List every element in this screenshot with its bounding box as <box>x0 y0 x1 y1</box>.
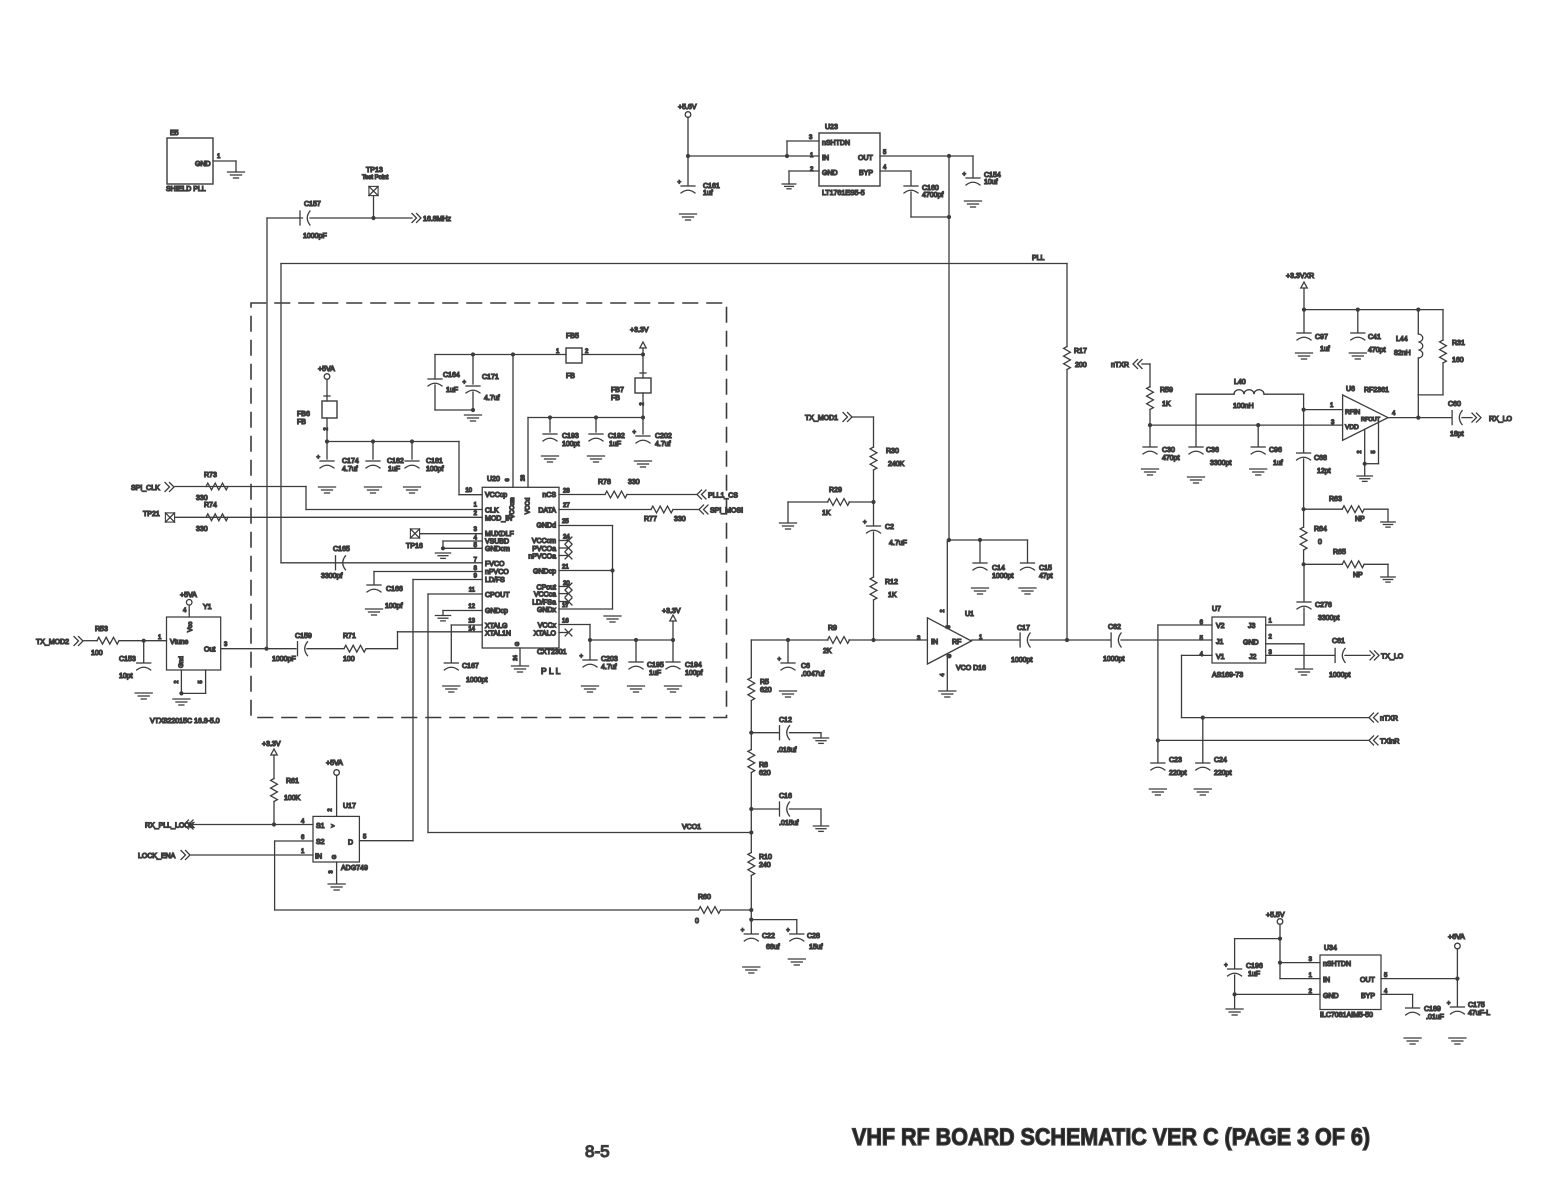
svg-text:C189: C189 <box>1424 1006 1441 1013</box>
svg-text:12: 12 <box>468 604 475 610</box>
svg-text:C182: C182 <box>387 458 404 465</box>
svg-text:FB: FB <box>611 395 620 402</box>
svg-text:4: 4 <box>940 673 946 676</box>
svg-text:GND: GND <box>1323 993 1339 1000</box>
svg-text:C24: C24 <box>1214 757 1227 764</box>
svg-text:10pt: 10pt <box>119 673 133 680</box>
svg-text:100K: 100K <box>284 795 301 802</box>
svg-text:SHIELD PLL: SHIELD PLL <box>166 186 206 193</box>
svg-text:nPVCO: nPVCO <box>485 569 509 576</box>
svg-text:CXT2301: CXT2301 <box>537 649 567 656</box>
svg-text:C15: C15 <box>1039 565 1052 572</box>
svg-text:6: 6 <box>505 478 511 481</box>
svg-text:Out: Out <box>204 647 215 654</box>
svg-text:C17: C17 <box>1017 625 1030 632</box>
svg-text:R59: R59 <box>1160 387 1173 394</box>
svg-text:1K: 1K <box>1162 401 1171 408</box>
svg-text:R60: R60 <box>698 894 711 901</box>
svg-text:4.7uf: 4.7uf <box>484 395 500 402</box>
svg-text:U20: U20 <box>487 476 500 483</box>
svg-text:1uF: 1uF <box>609 441 621 448</box>
svg-text:RX_PLL_LOCK: RX_PLL_LOCK <box>145 823 194 830</box>
svg-text:PVCOa: PVCOa <box>532 546 556 553</box>
svg-text:LD/FSa: LD/FSa <box>532 600 556 607</box>
svg-text:VCCca: VCCca <box>534 592 556 599</box>
svg-text:L44: L44 <box>1396 336 1408 343</box>
svg-text:220pt: 220pt <box>1169 770 1187 777</box>
svg-text:IN: IN <box>1323 977 1330 984</box>
svg-text:XTAL1N: XTAL1N <box>485 631 511 638</box>
svg-text:.018uf: .018uf <box>777 747 797 754</box>
svg-text:4.7uf: 4.7uf <box>601 664 617 671</box>
svg-text:TX_LO: TX_LO <box>1381 654 1404 661</box>
svg-text:+3.3V: +3.3V <box>662 608 681 615</box>
svg-text:15uf: 15uf <box>809 944 823 951</box>
svg-text:27: 27 <box>563 503 570 509</box>
svg-text:nTXR: nTXR <box>1380 716 1398 723</box>
svg-text:+: + <box>1224 963 1228 969</box>
svg-text:GNDcp: GNDcp <box>485 608 508 615</box>
svg-text:SPI_MOSI: SPI_MOSI <box>710 508 743 515</box>
svg-text:U7: U7 <box>1212 606 1221 613</box>
svg-text:C160: C160 <box>922 185 939 192</box>
svg-text:+: + <box>1447 1001 1451 1007</box>
svg-text:C62: C62 <box>1108 624 1121 631</box>
svg-text:+: + <box>863 520 867 526</box>
svg-text:C203: C203 <box>601 656 618 663</box>
svg-text:R65: R65 <box>1333 549 1346 556</box>
svg-text:LT1761ES5-5: LT1761ES5-5 <box>822 190 865 197</box>
svg-text:Y1: Y1 <box>203 604 212 611</box>
svg-text:1K: 1K <box>888 592 897 599</box>
svg-text:.01uF: .01uF <box>1426 1014 1444 1021</box>
svg-text:nTXR: nTXR <box>1111 362 1129 369</box>
svg-text:GNDcp: GNDcp <box>533 569 556 576</box>
svg-text:nSHTDN: nSHTDN <box>1323 961 1351 968</box>
svg-text:16.8MHz: 16.8MHz <box>423 216 452 223</box>
svg-text:C16: C16 <box>779 793 792 800</box>
svg-text:C167: C167 <box>462 663 479 670</box>
svg-text:C2: C2 <box>885 524 894 531</box>
svg-text:VDD: VDD <box>1345 424 1359 431</box>
svg-text:BYP: BYP <box>1361 993 1375 1000</box>
svg-text:25: 25 <box>562 519 569 525</box>
svg-text:SPI_CLK: SPI_CLK <box>131 485 160 492</box>
svg-text:C60: C60 <box>1448 401 1461 408</box>
svg-text:+: + <box>633 430 637 436</box>
svg-text:C96: C96 <box>1269 447 1282 454</box>
svg-text:+: + <box>778 657 782 663</box>
svg-text:R63: R63 <box>1329 496 1342 503</box>
svg-text:RFOUT: RFOUT <box>1361 417 1381 423</box>
svg-text:82nH: 82nH <box>1394 350 1411 357</box>
svg-text:R61: R61 <box>286 778 299 785</box>
svg-text:2K: 2K <box>823 648 832 655</box>
svg-text:2: 2 <box>940 609 946 612</box>
svg-text:R29: R29 <box>829 487 842 494</box>
svg-text:J2: J2 <box>1249 654 1257 661</box>
svg-text:TP16: TP16 <box>406 543 423 550</box>
svg-text:FB: FB <box>566 373 575 380</box>
svg-text:C157: C157 <box>304 201 321 208</box>
svg-text:1000pt: 1000pt <box>992 573 1013 580</box>
svg-text:100: 100 <box>91 650 103 657</box>
svg-text:RFIN: RFIN <box>1345 409 1360 416</box>
svg-text:21: 21 <box>562 565 569 571</box>
svg-text:1000pt: 1000pt <box>1329 672 1350 679</box>
svg-text:U6: U6 <box>1346 386 1355 393</box>
svg-text:100: 100 <box>343 656 355 663</box>
svg-text:+: + <box>786 928 790 934</box>
svg-text:VCCcp: VCCcp <box>485 492 507 499</box>
svg-text:+3.3V: +3.3V <box>262 741 281 748</box>
svg-text:R12: R12 <box>885 579 898 586</box>
svg-text:0: 0 <box>695 918 699 925</box>
svg-text:1uF: 1uF <box>388 466 400 473</box>
svg-text:12pt: 12pt <box>1317 468 1331 475</box>
svg-text:XTALO: XTALO <box>534 631 557 638</box>
svg-text:GNDx: GNDx <box>537 607 557 614</box>
svg-text:26: 26 <box>521 475 527 481</box>
svg-text:FB: FB <box>297 419 306 426</box>
svg-text:J3: J3 <box>1248 623 1256 630</box>
svg-text:OUT: OUT <box>1360 977 1376 984</box>
svg-text:C196: C196 <box>1246 963 1263 970</box>
svg-text:R31: R31 <box>1452 340 1465 347</box>
svg-text:CPOUT: CPOUT <box>485 592 510 599</box>
svg-text:+6VA: +6VA <box>1448 934 1465 941</box>
svg-text:S1: S1 <box>316 823 325 830</box>
svg-text:MUXDLF: MUXDLF <box>485 531 514 538</box>
svg-text:330: 330 <box>196 495 208 502</box>
svg-text:GND: GND <box>1243 640 1259 647</box>
svg-text:TX_MOD2: TX_MOD2 <box>36 639 69 646</box>
svg-text:RF2361: RF2361 <box>1364 387 1389 394</box>
svg-text:MOD_IN: MOD_IN <box>485 516 512 523</box>
svg-text:VTX822015C 16.8-5.0: VTX822015C 16.8-5.0 <box>150 718 220 725</box>
svg-text:ADG749: ADG749 <box>341 865 368 872</box>
svg-text:100pf: 100pf <box>385 603 403 610</box>
svg-text:+: + <box>317 455 321 461</box>
svg-text:>: > <box>331 824 335 830</box>
svg-text:nCS: nCS <box>542 492 556 499</box>
svg-text:FB7: FB7 <box>611 387 624 394</box>
svg-text:100pt: 100pt <box>562 441 580 448</box>
svg-text:3300pt: 3300pt <box>1318 615 1339 622</box>
svg-text:R64: R64 <box>1314 526 1327 533</box>
svg-text:10uf: 10uf <box>984 179 998 186</box>
svg-text:C23: C23 <box>1169 757 1182 764</box>
svg-text:VCCx: VCCx <box>538 623 557 630</box>
svg-text:VCCcm: VCCcm <box>532 538 556 545</box>
svg-text:PLL1_CS: PLL1_CS <box>708 493 738 500</box>
svg-text:FB5: FB5 <box>566 333 579 340</box>
svg-text:R10: R10 <box>759 854 772 861</box>
svg-text:47uF-L: 47uF-L <box>1468 1010 1490 1017</box>
svg-text:C161: C161 <box>703 183 720 190</box>
svg-text:CPout: CPout <box>537 585 557 592</box>
svg-text:Gnd: Gnd <box>178 656 185 668</box>
svg-text:IN: IN <box>822 155 829 162</box>
svg-text:GNDcm: GNDcm <box>485 546 510 553</box>
svg-text:1uf: 1uf <box>1273 460 1283 467</box>
svg-text:OUT: OUT <box>858 155 874 162</box>
svg-text:Vtune: Vtune <box>170 639 188 646</box>
svg-text:100pf: 100pf <box>426 466 444 473</box>
svg-text:R78: R78 <box>598 479 611 486</box>
svg-text:2: 2 <box>174 680 180 683</box>
svg-text:U1: U1 <box>965 611 974 618</box>
svg-text:R53: R53 <box>95 626 108 633</box>
svg-text:1000pt: 1000pt <box>1103 656 1124 663</box>
svg-text:FB6: FB6 <box>297 411 310 418</box>
svg-text:2: 2 <box>1357 450 1363 453</box>
svg-text:470pt: 470pt <box>1162 455 1180 462</box>
svg-text:620: 620 <box>759 770 771 777</box>
svg-text:RF: RF <box>952 639 961 646</box>
svg-text:3300pt: 3300pt <box>1210 460 1231 467</box>
svg-text:C68: C68 <box>1314 455 1327 462</box>
svg-text:4.7uf: 4.7uf <box>655 441 671 448</box>
svg-text:R73: R73 <box>204 472 217 479</box>
svg-text:28: 28 <box>563 489 570 495</box>
svg-text:G: G <box>515 642 521 646</box>
svg-text:+3.3VXR: +3.3VXR <box>1286 273 1314 280</box>
svg-text:G: G <box>332 855 338 859</box>
svg-text:C194: C194 <box>685 662 702 669</box>
svg-text:+: + <box>678 180 682 186</box>
svg-text:J1: J1 <box>1216 639 1224 646</box>
svg-text:2: 2 <box>328 808 334 811</box>
svg-text:VSUBD: VSUBD <box>485 539 509 546</box>
svg-text:NP: NP <box>1353 572 1363 579</box>
svg-text:1uF: 1uF <box>446 387 458 394</box>
svg-text:V1: V1 <box>1216 654 1225 661</box>
svg-text:4.7uF: 4.7uF <box>889 540 907 547</box>
svg-text:CLK: CLK <box>485 508 499 515</box>
svg-text:LD/FS: LD/FS <box>485 577 505 584</box>
svg-text:D: D <box>348 840 353 847</box>
svg-text:C171: C171 <box>482 374 499 381</box>
svg-text:C153: C153 <box>119 656 136 663</box>
svg-text:P L L: P L L <box>541 666 561 676</box>
svg-text:5: 5 <box>1371 450 1377 453</box>
svg-text:C28: C28 <box>807 933 820 940</box>
svg-text:330: 330 <box>196 526 208 533</box>
svg-text:+3.3V: +3.3V <box>630 327 649 334</box>
svg-text:TXinR: TXinR <box>1380 739 1399 746</box>
svg-text:C165: C165 <box>333 546 350 553</box>
svg-text:U34: U34 <box>1324 945 1337 952</box>
svg-text:.015uf: .015uf <box>779 820 799 827</box>
svg-text:GND: GND <box>822 170 838 177</box>
svg-text:C6: C6 <box>801 663 810 670</box>
svg-text:R5: R5 <box>760 679 769 686</box>
svg-text:620: 620 <box>760 687 772 694</box>
svg-text:C61: C61 <box>1332 638 1345 645</box>
svg-text:R9: R9 <box>828 625 837 632</box>
svg-text:R17: R17 <box>1074 348 1087 355</box>
svg-text:C192: C192 <box>608 433 625 440</box>
svg-text:VCO D16: VCO D16 <box>956 665 986 672</box>
svg-text:16: 16 <box>562 619 569 625</box>
svg-text:68uf: 68uf <box>766 944 780 951</box>
svg-text:3300pf: 3300pf <box>321 573 342 580</box>
svg-text:TX_MOD1: TX_MOD1 <box>805 415 838 422</box>
svg-text:200: 200 <box>1075 362 1087 369</box>
svg-text:NP: NP <box>1355 516 1365 523</box>
svg-text:+5VA: +5VA <box>318 366 335 373</box>
svg-text:LOCK_ENA: LOCK_ENA <box>138 853 176 860</box>
svg-text:1K: 1K <box>822 510 831 517</box>
svg-text:.0047uf: .0047uf <box>801 671 824 678</box>
svg-text:100pf: 100pf <box>685 670 703 677</box>
svg-text:+: + <box>963 172 967 178</box>
svg-text:C195: C195 <box>647 662 664 669</box>
svg-text:R74: R74 <box>204 502 217 509</box>
svg-text:24: 24 <box>513 655 519 661</box>
svg-text:1uf: 1uf <box>703 190 713 197</box>
svg-text:C14: C14 <box>992 565 1005 572</box>
svg-text:4700pf: 4700pf <box>922 192 943 199</box>
svg-text:Vcc: Vcc <box>187 622 194 632</box>
svg-text:240K: 240K <box>888 461 905 468</box>
svg-text:C12: C12 <box>779 717 792 724</box>
svg-text:L40: L40 <box>1234 379 1246 386</box>
svg-text:+: + <box>463 380 467 386</box>
svg-text:1uF: 1uF <box>1248 971 1260 978</box>
svg-text:XTALG: XTALG <box>485 623 507 630</box>
svg-text:GND: GND <box>195 161 211 168</box>
svg-text:+5VA: +5VA <box>326 760 343 767</box>
svg-text:C175: C175 <box>1468 1002 1485 1009</box>
svg-text:ILC7081AIM5-50: ILC7081AIM5-50 <box>1320 1012 1373 1019</box>
svg-text:4.7uf: 4.7uf <box>342 466 358 473</box>
svg-text:13: 13 <box>468 619 475 625</box>
svg-text:+5VA: +5VA <box>180 592 197 599</box>
svg-text:160: 160 <box>1452 357 1464 364</box>
svg-text:C22: C22 <box>762 933 775 940</box>
svg-text:18pt: 18pt <box>1450 431 1464 438</box>
svg-text:R8: R8 <box>759 762 768 769</box>
svg-text:C41: C41 <box>1368 334 1381 341</box>
svg-text:C166: C166 <box>386 586 403 593</box>
svg-text:1000pF: 1000pF <box>303 233 327 240</box>
svg-text:IN: IN <box>315 854 322 861</box>
svg-text:+5.5V: +5.5V <box>1266 912 1285 919</box>
svg-text:C36: C36 <box>1206 447 1219 454</box>
svg-text:C154: C154 <box>984 172 1001 179</box>
svg-text:VHF RF BOARD SCHEMATIC VER C (: VHF RF BOARD SCHEMATIC VER C (PAGE 3 OF … <box>852 1124 1370 1151</box>
svg-text:0: 0 <box>1318 539 1322 546</box>
svg-text:TP13: TP13 <box>366 167 383 174</box>
svg-text:DATA: DATA <box>538 508 556 515</box>
svg-text:C193: C193 <box>562 433 579 440</box>
svg-text:1000pF: 1000pF <box>272 656 296 663</box>
svg-text:C97: C97 <box>1315 334 1328 341</box>
svg-text:10: 10 <box>465 488 472 494</box>
svg-text:C181: C181 <box>426 458 443 465</box>
svg-text:220pt: 220pt <box>1214 770 1232 777</box>
svg-text:AS169-73: AS169-73 <box>1212 672 1243 679</box>
svg-text:47pt: 47pt <box>1039 573 1053 580</box>
svg-text:TP21: TP21 <box>143 511 160 518</box>
svg-text:U17: U17 <box>343 803 356 810</box>
svg-text:C30: C30 <box>1162 447 1175 454</box>
svg-text:C202: C202 <box>655 433 672 440</box>
svg-text:PLL: PLL <box>1032 255 1045 262</box>
svg-text:R71: R71 <box>343 633 356 640</box>
svg-text:RX_LO: RX_LO <box>1489 416 1513 423</box>
svg-text:VCCd: VCCd <box>525 497 532 514</box>
svg-text:11: 11 <box>469 588 476 594</box>
svg-text:VCO1: VCO1 <box>682 824 701 831</box>
svg-text:nSHTDN: nSHTDN <box>822 140 850 147</box>
svg-text:8-5: 8-5 <box>585 1142 610 1161</box>
svg-text:1uF: 1uF <box>649 670 661 677</box>
svg-text:BYP: BYP <box>859 170 873 177</box>
svg-text:470pt: 470pt <box>1368 347 1386 354</box>
svg-text:5: 5 <box>198 680 204 683</box>
svg-text:1000pt: 1000pt <box>1011 657 1032 664</box>
svg-text:IN: IN <box>931 639 938 646</box>
svg-text:U23: U23 <box>825 124 838 131</box>
svg-text:240: 240 <box>759 862 771 869</box>
svg-text:330: 330 <box>628 479 640 486</box>
svg-text:Test Point: Test Point <box>362 175 389 181</box>
svg-text:+: + <box>580 654 584 660</box>
svg-text:S2: S2 <box>316 839 325 846</box>
svg-text:GNDd: GNDd <box>537 523 557 530</box>
svg-text:C159: C159 <box>295 633 312 640</box>
svg-text:1000pt: 1000pt <box>466 677 487 684</box>
svg-text:R30: R30 <box>886 448 899 455</box>
svg-text:R77: R77 <box>644 516 657 523</box>
svg-text:nPVCOa: nPVCOa <box>528 554 556 561</box>
svg-text:FVCO: FVCO <box>485 561 505 568</box>
svg-text:1uf: 1uf <box>1320 346 1330 353</box>
svg-text:+: + <box>741 928 745 934</box>
svg-text:C276: C276 <box>1315 602 1332 609</box>
svg-text:E5: E5 <box>170 130 179 137</box>
svg-text:100nH: 100nH <box>1233 403 1254 410</box>
svg-text:V2: V2 <box>1216 623 1225 630</box>
svg-text:3: 3 <box>329 870 335 873</box>
svg-text:C164: C164 <box>443 372 460 379</box>
svg-text:+5.6V: +5.6V <box>678 104 697 111</box>
svg-text:330: 330 <box>674 516 686 523</box>
svg-text:C174: C174 <box>342 458 359 465</box>
